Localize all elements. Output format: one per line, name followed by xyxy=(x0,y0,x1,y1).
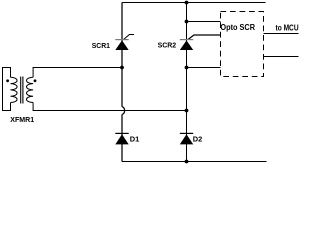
svg-text:D2: D2 xyxy=(193,134,203,143)
svg-text:Opto SCR: Opto SCR xyxy=(220,23,255,32)
svg-text:D1: D1 xyxy=(130,134,140,143)
svg-text:XFMR1: XFMR1 xyxy=(10,115,34,124)
svg-text:SCR1: SCR1 xyxy=(92,41,110,50)
svg-text:SCR2: SCR2 xyxy=(158,41,177,50)
svg-text:to MCU: to MCU xyxy=(276,24,299,33)
